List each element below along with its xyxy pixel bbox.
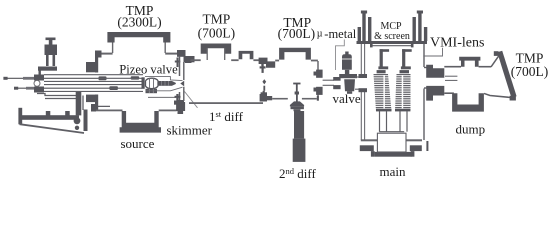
svg-text:2nd diff: 2nd diff: [279, 166, 316, 181]
piezo valve body: [146, 78, 159, 88]
svg-text:(700L): (700L): [198, 26, 236, 41]
svg-text:(700L): (700L): [278, 26, 316, 41]
fitting F2a: [109, 86, 118, 90]
svg-text:TMP: TMP: [203, 11, 231, 26]
VMI stack right column: [395, 74, 411, 111]
side tick right of main bottom: [426, 141, 428, 151]
gate valve cross bar: [339, 74, 357, 78]
1st diff bottom-left blocks: [174, 94, 184, 114]
source chamber mount bracket: [37, 94, 110, 111]
2nd diff right flange blocks: [314, 70, 323, 101]
feedthrough cluster left: [358, 11, 372, 42]
2nd diff top wall: [275, 60, 318, 62]
dump bottom port: [452, 93, 484, 111]
VMI-lens leader line: [423, 48, 442, 56]
valve support post: [76, 92, 82, 115]
svg-text:-metal: -metal: [324, 27, 356, 41]
svg-text:valve: valve: [333, 91, 361, 106]
2nd diff bottom wall: [272, 98, 317, 100]
dump cone: [484, 55, 511, 98]
main left beam port blocks: [359, 74, 368, 92]
tube wall mount: [86, 62, 96, 102]
support rail: [18, 108, 80, 130]
source chamber top wall: [95, 53, 179, 55]
source chamber bottom wall: [92, 110, 177, 112]
TMP 2300L flange bar: [107, 32, 170, 43]
flange pair before valve: [333, 77, 340, 89]
source chamber top-right corner blocks: [175, 50, 195, 67]
1st diff TMP port: [201, 44, 232, 54]
svg-text:source: source: [121, 136, 155, 151]
dump tube walls: [444, 67, 491, 94]
1st diff bottom-right blocks: [260, 91, 273, 102]
source chamber top-left corner block: [95, 51, 102, 58]
source chamber right wall: [179, 56, 181, 103]
feedthrough cluster right: [413, 11, 428, 42]
main chamber left wall: [361, 44, 364, 140]
gas line 2: [14, 87, 110, 90]
gas line 1: [3, 77, 98, 80]
source bottom-right corner: [176, 102, 185, 111]
screen end pins: [370, 44, 373, 47]
2nd diff right wall: [317, 61, 319, 98]
svg-text:1st diff: 1st diff: [209, 109, 244, 124]
svg-text:main: main: [380, 164, 406, 179]
piezo valve left flange: [142, 77, 145, 89]
feed valve assembly top-left: [38, 38, 57, 78]
dump top port: [459, 57, 480, 67]
pedestal box: [377, 132, 406, 152]
skimmer: [180, 81, 184, 87]
nozzle: [146, 81, 176, 93]
source chamber wedge bottom: [20, 124, 85, 133]
tube valve to main: [355, 77, 363, 89]
VMI stack right column channel: [402, 75, 404, 109]
MCP foot pads: [377, 70, 386, 73]
valve shelf line: [148, 96, 176, 98]
svg-text:(2300L): (2300L): [117, 15, 161, 30]
stack legs: [380, 111, 408, 132]
2nd diff pump pillar: [290, 94, 306, 162]
1st diff left wall: [183, 62, 185, 101]
main chamber top wall: [357, 41, 428, 44]
MCP bracket right: [401, 49, 412, 69]
gate valve stem: [345, 70, 349, 74]
main chamber right wall: [424, 44, 433, 140]
tube left end flange: [34, 75, 44, 93]
1st diff bottom wall: [189, 102, 263, 104]
inter-chamber flange top: [259, 58, 276, 68]
svg-text:skimmer: skimmer: [167, 123, 213, 138]
T-pin top inter-chamber: [260, 64, 266, 73]
fitting F1b: [131, 76, 140, 79]
gate valve body: [344, 79, 355, 91]
svg-text:µ: µ: [317, 29, 323, 40]
1st diff top wall: [191, 59, 263, 61]
main bottom center bar: [375, 152, 412, 157]
1st diff small stub: [239, 51, 254, 59]
source chamber left wall: [95, 51, 98, 73]
mu-metal leader line: [336, 40, 345, 71]
gate valve actuator: [342, 54, 352, 70]
svg-text:Pizeo valve: Pizeo valve: [119, 62, 178, 76]
main bottom corner blocks: [360, 145, 422, 156]
TMP 2300L port neck: [113, 42, 166, 53]
VMI stack left column: [374, 74, 392, 111]
T-piece inside 2nd diff: [293, 83, 300, 95]
dump inner stub: [445, 76, 457, 80]
svg-text:& screen: & screen: [374, 31, 410, 42]
MCP bracket left: [378, 49, 389, 69]
screen line: [372, 45, 414, 47]
1st diff top-left corner: [185, 60, 192, 63]
svg-text:dump: dump: [456, 122, 486, 137]
VMI stack left column channel: [383, 75, 385, 109]
svg-text:VMI-lens: VMI-lens: [430, 36, 484, 51]
source tube: [44, 75, 143, 92]
source bottom port: [120, 111, 161, 133]
dump port flange blocks: [426, 65, 444, 101]
fitting F1a: [99, 76, 107, 80]
beam cone lines to skimmer: [145, 77, 183, 91]
dump slanted TMP flange: [497, 51, 516, 98]
source bottom-left corner: [91, 104, 96, 112]
2nd diff TMP port: [279, 48, 311, 60]
main chamber bottom wall: [361, 139, 422, 141]
apertures between chambers: [262, 79, 266, 90]
beam tube 2nd diff to valve: [323, 80, 334, 85]
skimmer leader line: [185, 92, 198, 108]
svg-text:(700L): (700L): [511, 64, 549, 79]
1st diff right wall: [261, 61, 263, 66]
VMI stack base bars: [376, 109, 392, 112]
